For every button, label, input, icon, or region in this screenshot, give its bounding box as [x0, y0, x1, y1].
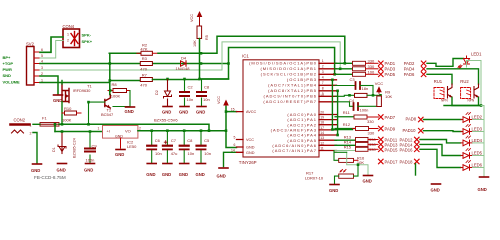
- resistor R6: [355, 93, 381, 97]
- svg-text:GND: GND: [31, 168, 40, 173]
- svg-text:(MOSI/DI/SDA/OC1A)PB0: (MOSI/DI/SDA/OC1A)PB0: [249, 61, 317, 66]
- svg-text:R12: R12: [343, 122, 351, 127]
- svg-text:10K: 10K: [385, 94, 392, 99]
- supply VCC arrow for R5: [190, 11, 202, 26]
- svg-text:GND: GND: [179, 172, 188, 177]
- svg-text:BZX55-C5V6: BZX55-C5V6: [154, 118, 178, 123]
- wire main rail A from F1: [59, 124, 209, 130]
- svg-text:(ADC8/XTAL2)PB5: (ADC8/XTAL2)PB5: [268, 88, 317, 93]
- wire R5 bottom rail: [199, 39, 201, 80]
- svg-text:C8: C8: [187, 138, 193, 143]
- svg-text:47u: 47u: [171, 151, 178, 156]
- svg-text:PAD2: PAD2: [404, 61, 415, 66]
- svg-text:AVCC: AVCC: [246, 110, 257, 114]
- resistor R13: [344, 134, 378, 142]
- X no-connect PAD13: [379, 142, 384, 147]
- svg-text:PAD16: PAD16: [400, 148, 414, 153]
- svg-text:BP+: BP+: [3, 55, 12, 60]
- photo resistor R17 LDR: [305, 163, 359, 184]
- wire rail B regulator line: [55, 131, 103, 133]
- capacitor C1: [197, 80, 210, 106]
- transistor T2 NPN: [101, 95, 114, 118]
- svg-text:RU1: RU1: [434, 79, 443, 84]
- ground PAD18: [431, 184, 441, 192]
- IC1 right pin names: [249, 61, 317, 153]
- IC1 pin numbers right: [320, 59, 324, 150]
- svg-text:IC1: IC1: [242, 53, 249, 58]
- ground C1: [196, 107, 206, 115]
- wire R2 right to corner up and top run: [158, 36, 345, 63]
- svg-text:GND: GND: [115, 135, 123, 139]
- svg-text:GND: GND: [246, 146, 255, 150]
- IC1 pin numbers left: [231, 108, 236, 153]
- svg-text:330: 330: [369, 147, 376, 152]
- ground C9: [84, 164, 95, 173]
- svg-text:R11: R11: [343, 110, 351, 115]
- svg-text:D4: D4: [181, 55, 187, 60]
- svg-text:GND: GND: [125, 109, 134, 114]
- connector SV2: [26, 42, 43, 86]
- resistor R5 vertical: [193, 26, 209, 47]
- svg-text:GND: GND: [162, 110, 171, 115]
- svg-text:19: 19: [320, 116, 324, 120]
- svg-text:18: 18: [320, 121, 324, 125]
- svg-text:VO: VO: [125, 129, 131, 134]
- svg-text:330: 330: [368, 58, 375, 63]
- diode D2 zener: [155, 80, 172, 106]
- resistor R12: [343, 122, 378, 136]
- resistor R7: [140, 72, 199, 87]
- svg-text:14: 14: [231, 148, 235, 152]
- svg-text:SPK+: SPK+: [82, 39, 93, 44]
- ground C5: [196, 164, 206, 178]
- wire PAD14 to LED5: [420, 144, 461, 155]
- wire R2 row: [109, 53, 141, 94]
- supply VCC arrow near IC1: [217, 96, 229, 107]
- X no-connect PAD11: [379, 137, 384, 142]
- diode D4: [176, 55, 191, 71]
- svg-text:R15: R15: [344, 145, 352, 150]
- wire pin9 jog to R6: [335, 95, 355, 96]
- wire caps rail row1: [200, 78, 229, 80]
- svg-text:12: 12: [320, 141, 324, 145]
- ground D1: [57, 164, 67, 173]
- svg-text:NPN: NPN: [441, 99, 448, 103]
- svg-text:14: 14: [320, 131, 324, 135]
- svg-text:PAD10: PAD10: [403, 128, 417, 133]
- svg-text:4: 4: [322, 76, 324, 80]
- svg-text:10n: 10n: [204, 151, 211, 156]
- svg-text:GND: GND: [179, 110, 188, 115]
- wire LED cathode rail down: [481, 106, 484, 178]
- resistor R9 PAD1: [353, 58, 379, 65]
- svg-text:VCC: VCC: [375, 81, 384, 86]
- svg-text:PAD18: PAD18: [400, 160, 414, 165]
- svg-text:GND: GND: [363, 179, 372, 184]
- svg-text:10: 10: [320, 94, 324, 98]
- wire PAD16 to LED6: [420, 149, 461, 167]
- svg-text:17: 17: [320, 126, 324, 130]
- svg-text:100K: 100K: [62, 118, 72, 123]
- svg-text:VCC: VCC: [190, 14, 194, 22]
- svg-text:LED2: LED2: [472, 115, 483, 120]
- svg-text:7: 7: [322, 81, 324, 85]
- svg-text:PAD4: PAD4: [404, 67, 415, 72]
- X no-connect PAD5: [379, 72, 384, 77]
- ground C8b: [179, 164, 189, 178]
- ground T2 emitter: [125, 107, 135, 114]
- svg-text:LED1: LED1: [471, 52, 482, 57]
- svg-text:F1: F1: [42, 116, 47, 121]
- LED LED6: [461, 161, 484, 171]
- svg-text:1: 1: [322, 59, 324, 63]
- svg-text:(ADC7/XTAL1)PB4: (ADC7/XTAL1)PB4: [268, 83, 317, 88]
- svg-text:GND: GND: [246, 151, 255, 155]
- capacitor C5: [197, 131, 211, 163]
- wire rail B right of IC2: [138, 130, 226, 132]
- wire PAD18 to ground: [415, 164, 417, 175]
- svg-text:PAD9: PAD9: [385, 127, 396, 132]
- wire dark corner R3 net to top: [229, 48, 335, 75]
- photo transistor RU2: [460, 79, 478, 103]
- svg-text:PAD6: PAD6: [404, 72, 415, 77]
- wire PAD12 to LED4: [420, 140, 461, 143]
- svg-text:TINY26P: TINY26P: [239, 160, 257, 165]
- svg-text:SPK-: SPK-: [82, 33, 92, 38]
- connector CON4 speaker: [63, 24, 80, 48]
- LED LED1: [458, 52, 482, 69]
- resistor R16: [334, 151, 365, 165]
- wire speaker pin2 to SV2 pin5: [40, 41, 63, 59]
- svg-text:10K: 10K: [193, 40, 197, 47]
- wire vertical bus x333: [332, 80, 352, 130]
- wire pin7 jog to C3: [335, 85, 356, 87]
- transistor T1 MOSFET: [62, 84, 92, 103]
- svg-text:RU2: RU2: [460, 79, 469, 84]
- ground C6: [146, 164, 156, 178]
- svg-text:2: 2: [30, 132, 32, 136]
- svg-text:100: 100: [368, 69, 375, 74]
- wire vertical bus x337: [337, 91, 339, 135]
- resistor R11: [343, 110, 379, 124]
- wire VCC down to rail and AVCC pin: [226, 107, 237, 148]
- svg-text:(MISO/DO/OC1A)PB1: (MISO/DO/OC1A)PB1: [260, 66, 317, 71]
- ground D2: [162, 107, 172, 115]
- capacitor C2: [180, 80, 193, 106]
- svg-text:PAD7: PAD7: [385, 115, 396, 120]
- wire R3 row to corner junction: [202, 64, 229, 80]
- svg-text:(ADC7/AIN1)PA7: (ADC7/AIN1)PA7: [272, 148, 317, 153]
- svg-text:3: 3: [322, 70, 324, 74]
- svg-text:R10: R10: [64, 106, 72, 111]
- svg-text:GND: GND: [162, 172, 171, 177]
- photo transistor RU1: [434, 79, 452, 103]
- wire LED1 cathode to rail: [467, 61, 482, 106]
- ground light rail: [363, 176, 373, 184]
- IC1 right pin stubs: [319, 63, 337, 150]
- resistor R10: [62, 106, 81, 123]
- svg-text:2: 2: [67, 39, 69, 43]
- svg-text:C2: C2: [188, 85, 194, 90]
- svg-text:LED6: LED6: [472, 163, 483, 168]
- wire rail A to IC1 VCC pin: [225, 125, 227, 127]
- wire T1 drain down to rail: [61, 102, 63, 124]
- svg-text:NPN: NPN: [468, 99, 475, 103]
- ground C2: [179, 107, 189, 115]
- svg-text:PWR: PWR: [3, 67, 12, 72]
- svg-text:LE50: LE50: [127, 144, 137, 149]
- ground IC1 pins: [217, 168, 229, 179]
- capacitor C6: [147, 131, 161, 163]
- svg-text:PAD1: PAD1: [385, 61, 396, 66]
- svg-text:VCC: VCC: [246, 138, 254, 142]
- svg-text:BZX85-C24: BZX85-C24: [73, 138, 77, 158]
- svg-text:GND: GND: [146, 172, 155, 177]
- ground SV2 pin2: [53, 95, 63, 103]
- svg-text:C6: C6: [155, 138, 161, 143]
- svg-text:15: 15: [231, 108, 235, 112]
- svg-text:R8: R8: [112, 82, 118, 87]
- svg-text:VCC: VCC: [217, 96, 221, 104]
- wire IC1 pin14 to ground: [224, 152, 237, 166]
- wire light corner pin3 net to top: [222, 42, 340, 70]
- ground CON2: [31, 164, 42, 173]
- svg-text:SV2: SV2: [26, 42, 35, 47]
- svg-text:GND: GND: [53, 98, 62, 103]
- svg-text:6: 6: [234, 143, 236, 147]
- wire SV2 pin2 to ground: [40, 76, 58, 95]
- wire pins to PAD1 resistor row: [335, 62, 353, 64]
- svg-text:GND: GND: [217, 174, 226, 179]
- wire PAD6 to RU1: [427, 74, 452, 84]
- wire SV2 pin4 row: [40, 63, 229, 65]
- svg-text:100n: 100n: [360, 108, 369, 113]
- X no-connect PAD3: [379, 67, 384, 72]
- svg-text:(ADC10/RESET)PB7: (ADC10/RESET)PB7: [263, 99, 317, 104]
- op-amp U1 main IC ATtiny26 box: [239, 53, 319, 165]
- svg-text:GND: GND: [431, 187, 440, 192]
- node junction R5 rail: [200, 62, 203, 65]
- resistor R8: [108, 82, 130, 98]
- svg-text:LED5: LED5: [472, 151, 483, 156]
- svg-text:VOLUME: VOLUME: [3, 80, 20, 85]
- svg-text:+TOP: +TOP: [3, 61, 14, 66]
- svg-text:BC547: BC547: [101, 112, 114, 117]
- svg-text:10n: 10n: [203, 97, 210, 102]
- wire RU emitters to rail: [444, 98, 479, 106]
- capacitor C7: [163, 131, 177, 163]
- svg-text:C9: C9: [92, 144, 98, 149]
- capacitor C9: [85, 132, 97, 164]
- IC U2 voltage regulator: [98, 126, 142, 150]
- diode D1 zener: [52, 132, 77, 159]
- svg-text:GND: GND: [115, 152, 124, 157]
- svg-text:C3: C3: [350, 77, 356, 82]
- svg-text:R7: R7: [142, 72, 148, 77]
- svg-text:1: 1: [67, 33, 69, 37]
- supply VCC arrow right cluster: [375, 81, 384, 93]
- resistor R10b PAD3: [353, 64, 379, 71]
- svg-text:1: 1: [98, 126, 100, 130]
- svg-text:IRFD9630: IRFD9630: [73, 89, 90, 93]
- svg-text:GND: GND: [84, 168, 93, 173]
- wire PAD8 to LED2: [424, 119, 462, 121]
- fuse F1: [40, 116, 59, 127]
- svg-text:LED3: LED3: [472, 127, 483, 132]
- X no-connect PAD7: [379, 115, 384, 120]
- svg-text:GND: GND: [478, 187, 487, 192]
- resistor R18 10K vertical: [377, 90, 393, 107]
- svg-text:C5: C5: [204, 138, 210, 143]
- IC1 left pin names: [246, 110, 257, 155]
- wire pin11 down to light rail: [347, 152, 368, 175]
- svg-text:47K: 47K: [140, 47, 147, 52]
- wire PAD10 to LED3: [424, 130, 462, 133]
- svg-text:470: 470: [140, 82, 147, 87]
- svg-text:CON2: CON2: [14, 118, 26, 123]
- svg-text:LDR07-10: LDR07-10: [305, 176, 324, 181]
- svg-text:13: 13: [320, 136, 324, 140]
- svg-text:10n: 10n: [155, 151, 162, 156]
- wire pin3 to PAD5 resistor: [335, 73, 353, 75]
- svg-text:C7: C7: [171, 138, 177, 143]
- svg-text:10n: 10n: [188, 151, 195, 156]
- resistor R3: [140, 56, 152, 71]
- wire T2 collector up to R8 junction: [109, 81, 111, 95]
- svg-text:CON4: CON4: [63, 24, 75, 29]
- svg-text:330: 330: [368, 64, 375, 69]
- wire volume row to R7: [109, 80, 140, 82]
- wire T2 base from left: [89, 102, 105, 124]
- svg-text:10n: 10n: [187, 97, 194, 102]
- ground C7: [162, 164, 172, 178]
- wire C3 right up to VCC: [372, 86, 374, 96]
- capacitor C4: [349, 95, 381, 112]
- wire CON2 pin1 to F1: [33, 123, 40, 125]
- svg-text:470: 470: [140, 66, 147, 71]
- svg-text:T1: T1: [87, 84, 92, 89]
- IC1 left pin stubs: [237, 112, 244, 153]
- svg-text:C4: C4: [349, 98, 355, 103]
- svg-text:C8: C8: [204, 85, 210, 90]
- svg-text:PAD8: PAD8: [406, 117, 417, 122]
- ground IC2: [115, 150, 125, 158]
- wire IC1 pin6 from VCC vertical: [225, 147, 227, 149]
- wire PAD4 to RU2: [427, 69, 479, 84]
- wire pin2 to PAD3 resistor: [335, 68, 353, 70]
- svg-text:18n: 18n: [362, 86, 369, 91]
- svg-text:PAD17: PAD17: [385, 160, 399, 165]
- svg-text:GND: GND: [196, 172, 205, 177]
- svg-text:(ADC9/INT0/T0)PB6: (ADC9/INT0/T0)PB6: [264, 94, 317, 99]
- X no-connect PAD15: [379, 147, 384, 152]
- X no-connect PAD1: [379, 61, 384, 66]
- capacitor C8b: [180, 131, 194, 163]
- wire T1 top to volume row: [61, 81, 63, 85]
- svg-text:D2: D2: [155, 90, 159, 95]
- wire pins to R13 R14 R15: [335, 140, 356, 145]
- svg-text:PAD3: PAD3: [385, 67, 396, 72]
- ground R17: [329, 185, 339, 194]
- connector CON2 battery: [11, 118, 32, 136]
- wire SV2 pin1 row: [40, 82, 109, 84]
- wire speaker pin1 to SV2 pin6: [40, 37, 63, 52]
- svg-text:FB-CCD-8.75M: FB-CCD-8.75M: [34, 175, 66, 180]
- svg-text:GND: GND: [196, 110, 205, 115]
- svg-text:R13: R13: [344, 134, 352, 139]
- resistor R14: [344, 140, 378, 147]
- svg-text:1: 1: [30, 124, 32, 128]
- LED LED3: [461, 125, 484, 135]
- wire pin10 jog to C4: [335, 102, 353, 107]
- LED LED2: [461, 113, 484, 123]
- capacitor C3: [350, 77, 374, 91]
- svg-text:8: 8: [322, 87, 324, 91]
- LED LED5: [461, 149, 484, 159]
- resistor R11a PAD5: [353, 69, 379, 76]
- svg-text:(OC1B)PB3: (OC1B)PB3: [287, 77, 317, 82]
- svg-text:GND: GND: [329, 188, 338, 193]
- svg-text:GND: GND: [57, 168, 66, 173]
- svg-text:PAD5: PAD5: [385, 72, 396, 77]
- svg-text:330: 330: [368, 130, 375, 135]
- svg-text:R3: R3: [142, 56, 148, 61]
- X no-connect PAD9: [379, 126, 384, 131]
- resistor R2: [109, 43, 158, 56]
- svg-text:2: 2: [322, 65, 324, 69]
- svg-text:330: 330: [367, 119, 374, 124]
- LED LED4: [461, 136, 484, 146]
- svg-text:SND: SND: [3, 73, 12, 78]
- svg-text:LED4: LED4: [472, 138, 483, 143]
- wire R8 right down to ground: [113, 91, 130, 107]
- X no-connect PAD17: [379, 159, 384, 164]
- svg-text:2: 2: [139, 126, 141, 130]
- svg-text:+I: +I: [107, 129, 110, 134]
- svg-text:5: 5: [234, 136, 236, 140]
- svg-text:20: 20: [320, 111, 324, 115]
- wire PAD2 to LED1: [427, 59, 464, 67]
- wire CON2 pin2 down to ground: [33, 133, 37, 164]
- svg-text:PAD15: PAD15: [385, 148, 399, 153]
- resistor R15: [344, 145, 378, 153]
- svg-text:100n: 100n: [86, 158, 95, 163]
- svg-text:11: 11: [320, 147, 324, 151]
- ground LED rail: [478, 177, 489, 192]
- svg-text:100K: 100K: [111, 94, 121, 99]
- svg-text:1N4148: 1N4148: [176, 66, 191, 71]
- wire caps row2 junctions: [150, 129, 153, 132]
- svg-text:(SCK/SCL/OC1B)PB2: (SCK/SCL/OC1B)PB2: [261, 72, 317, 77]
- svg-text:R5: R5: [205, 35, 209, 40]
- wire SV2 pin3 row: [40, 69, 222, 71]
- svg-text:D1: D1: [52, 147, 56, 152]
